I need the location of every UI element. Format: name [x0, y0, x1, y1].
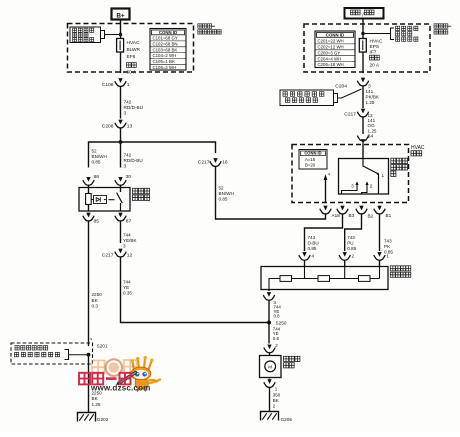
connector C106 pin 1 [102, 78, 130, 88]
svg-text:EPS: EPS [370, 44, 380, 50]
svg-text:3: 3 [124, 163, 127, 168]
svg-text:B=20: B=20 [305, 163, 316, 168]
svg-text:0.85: 0.85 [92, 160, 101, 165]
connector B3 [337, 206, 355, 218]
wire B+ to fuse EF6 [120, 20, 122, 39]
svg-text:RD/D-BU: RD/D-BU [124, 105, 144, 110]
svg-text:M: M [268, 364, 272, 369]
svg-text:CONN ID: CONN ID [159, 30, 177, 35]
svg-text:0.8: 0.8 [274, 314, 281, 319]
label: blower motor relay [133, 188, 150, 200]
svg-text:C204: C204 [335, 84, 347, 90]
connector C217 pin 13 [344, 109, 368, 118]
svg-text:2250: 2250 [92, 292, 103, 297]
CONN ID table (HVAC control) A=16 B=20 [299, 150, 327, 170]
svg-text:C217: C217 [198, 160, 210, 166]
svg-text:C101=68 GY: C101=68 GY [153, 36, 178, 41]
relay pin 30 connector [115, 174, 131, 185]
connector B4 into HVAC control [357, 136, 368, 159]
blower motor resistor R1 [261, 267, 388, 290]
svg-text:EF6: EF6 [127, 54, 136, 60]
svg-text:30: 30 [126, 174, 132, 180]
ground G202 [78, 413, 109, 423]
svg-text:2: 2 [275, 343, 278, 348]
svg-text:G202: G202 [97, 417, 109, 422]
wire RUN/START to fuse IF7 [362, 19, 364, 39]
svg-text:B2: B2 [368, 214, 374, 219]
label: fuse block - engine compartment [198, 24, 221, 34]
svg-text:A18: A18 [332, 213, 341, 218]
svg-text:744: 744 [123, 233, 131, 238]
svg-text:C105=1 BK: C105=1 BK [153, 59, 175, 64]
wire 2250 BK 0.3 (relay 85 to S201) [89, 221, 103, 347]
wire 742 RD/D-BU 3 to relay pin 30 [121, 142, 143, 168]
svg-text:HVAC: HVAC [127, 40, 141, 46]
svg-text:CONN ID: CONN ID [326, 33, 344, 38]
svg-text:2: 2 [352, 254, 355, 259]
svg-text:C102=68 BN: C102=68 BN [153, 41, 178, 46]
wire 2250 BK 1.25 (S201 to G202) [89, 355, 103, 413]
fuse box - engine compartment dashed enclosure [68, 24, 194, 73]
svg-text:PK: PK [384, 244, 391, 249]
label: blower motor [284, 356, 300, 368]
connector C217 pin 12 [102, 249, 133, 259]
relay pin 87 connector [115, 213, 132, 225]
label: blower motor switch [391, 158, 408, 176]
wire 744 YE 0.8 (S250 to blower motor) [269, 323, 281, 348]
svg-text:CONN ID: CONN ID [304, 151, 321, 156]
svg-text:BK: BK [92, 396, 99, 401]
wire 742 RD/D-BU 3 (C106 to C208) [121, 86, 144, 119]
wire 743 PK 0.85 (B1 to resistor pin 1) [380, 214, 394, 255]
svg-text:0.35: 0.35 [123, 291, 132, 296]
svg-text:60 A: 60 A [127, 69, 137, 75]
blower motor switch S1 [339, 159, 389, 195]
svg-text:RD/D-BU: RD/D-BU [124, 158, 143, 163]
label: fuse block - instrument panel [434, 24, 451, 34]
splice S201 with note: ground distribution schematic [11, 336, 108, 364]
svg-text:52: 52 [219, 186, 225, 191]
svg-text:4: 4 [312, 254, 315, 259]
svg-text:87: 87 [126, 219, 132, 225]
svg-text:85: 85 [94, 219, 100, 225]
svg-text:86: 86 [94, 174, 100, 180]
ground G205 [261, 412, 293, 423]
svg-text:C206=18 WH: C206=18 WH [318, 62, 344, 67]
svg-text:D-BU: D-BU [308, 241, 319, 246]
svg-text:BN/WH: BN/WH [92, 154, 107, 159]
connector C208 pin 13 [102, 120, 133, 130]
svg-text:BN/WH: BN/WH [219, 191, 234, 196]
connector A18 [320, 206, 340, 218]
svg-text:1: 1 [127, 82, 130, 88]
resistor pin 4 connector [299, 252, 315, 266]
svg-text:2: 2 [370, 184, 373, 189]
wire A18 feed arrow inside HVAC control [324, 173, 331, 203]
svg-text:1.25: 1.25 [366, 100, 375, 105]
connector B1 [374, 206, 392, 218]
power node RUN/START [345, 8, 384, 19]
svg-text:HVAC: HVAC [411, 145, 425, 151]
svg-text:0.8: 0.8 [273, 336, 280, 341]
svg-text:A=16: A=16 [305, 157, 316, 162]
wire 141 OG 1.25 (C217-13 to HVAC control B4) [363, 113, 377, 138]
wire 52 BN/WH 0.85 (C217-16 to HVAC control A18) [216, 166, 326, 219]
blower motor M1 [260, 356, 282, 378]
svg-text:HVAC: HVAC [370, 38, 384, 44]
wire branch to C217 pin 16 [121, 142, 216, 153]
svg-text:743: 743 [384, 239, 392, 244]
blower motor relay K1 [79, 185, 130, 211]
svg-text:742: 742 [124, 100, 132, 105]
svg-text:1: 1 [386, 254, 389, 259]
svg-text:743: 743 [347, 235, 355, 240]
svg-text:C208: C208 [102, 124, 114, 130]
svg-text:13: 13 [127, 124, 133, 130]
svg-text:743: 743 [308, 235, 316, 240]
note: power distribution schematic (middle) [280, 89, 362, 106]
fuse box - instrument panel dashed enclosure [304, 24, 430, 72]
svg-text:S201: S201 [97, 343, 108, 348]
connector C217 pin 16 [198, 158, 228, 166]
svg-text:BK: BK [273, 398, 279, 403]
blower motor pin 1 connector [264, 378, 278, 392]
svg-text:141: 141 [366, 89, 374, 94]
relay pin 86 connector [83, 174, 99, 185]
svg-text:B3: B3 [349, 213, 355, 218]
svg-text:20 A: 20 A [370, 62, 380, 68]
wire branch to relay coil (52 BN/WH 0.85) [89, 142, 121, 168]
connector C204 pin 3 [335, 78, 371, 90]
svg-text:742: 742 [124, 153, 132, 158]
svg-text:3: 3 [123, 244, 126, 249]
svg-text:744: 744 [123, 280, 131, 285]
svg-text:www.dzsc.com: www.dzsc.com [90, 383, 151, 392]
wire 744 YE 0.35 (C217-12 to S250) [121, 257, 268, 323]
relay pin 85 connector [83, 213, 99, 225]
svg-text:B1: B1 [386, 213, 392, 218]
fuse IF7 HVAC EPS 20A [359, 38, 383, 73]
fuse EF6 HVAC BLWR 60A [117, 39, 141, 76]
wire junction below C208 [119, 128, 123, 144]
wire 743 D-BU 0.85 (B3 to resistor pin 4) [305, 214, 343, 252]
watermark dzsc.com mascot and text [79, 356, 160, 392]
svg-text:0.85: 0.85 [219, 197, 228, 202]
svg-text:B+: B+ [116, 12, 125, 19]
svg-text:YE/BK: YE/BK [123, 238, 137, 243]
svg-text:C201=22 WH: C201=22 WH [318, 39, 344, 44]
svg-text:C104=2 WH: C104=2 WH [153, 53, 177, 58]
svg-text:4: 4 [328, 173, 330, 177]
svg-text:C217: C217 [344, 112, 356, 118]
wire 141 PK/BK 1.25 (C204 to C217-13) [363, 86, 380, 109]
svg-text:s: s [90, 336, 92, 341]
svg-text:BLWR: BLWR [127, 47, 141, 53]
CONN ID table (engine fuse box) [150, 29, 186, 71]
svg-text:0.85: 0.85 [347, 246, 356, 251]
svg-text:C103=68 BK: C103=68 BK [153, 47, 178, 52]
svg-text:3: 3 [351, 184, 354, 189]
svg-text:PU: PU [347, 241, 353, 246]
svg-text:BK: BK [92, 298, 99, 303]
svg-text:1.25: 1.25 [92, 402, 101, 407]
splice S250 [267, 321, 287, 326]
svg-text:3: 3 [124, 111, 127, 116]
svg-text:0.85: 0.85 [308, 246, 317, 251]
wire 744 YE 0.8 (resistor pin 3 to S250) [269, 300, 281, 323]
resistor pin 3 connector [263, 290, 274, 301]
note: power distribution schematic (in wiring system) [70, 27, 122, 43]
power node B+ [112, 9, 130, 20]
resistor pin 2 connector [339, 252, 354, 266]
svg-text:C106=2 WH: C106=2 WH [153, 65, 177, 70]
wire 743 PU 0.85 (B2 to resistor pin 2) [345, 214, 362, 252]
svg-text:12: 12 [127, 253, 133, 259]
HVAC control dashed enclosure [292, 145, 409, 203]
svg-text:S250: S250 [276, 321, 287, 326]
svg-text:C200=3 GY: C200=3 GY [318, 50, 341, 55]
svg-text:16: 16 [222, 160, 228, 166]
resistor pin 1 connector [374, 252, 389, 266]
label: blower motor resistor [390, 266, 411, 278]
svg-text:PK/BK: PK/BK [366, 95, 380, 100]
note: power distribution schematic (right) [361, 26, 418, 41]
svg-text:YE: YE [123, 285, 129, 290]
svg-text:IF7: IF7 [370, 50, 377, 56]
label: HVAC control [411, 145, 425, 156]
wire 744 YE/BK 3 (relay 87 to C217-12) [121, 221, 138, 249]
blower motor pin 2 connector [264, 345, 275, 356]
wire 350 BK 2 (motor to G205) [270, 387, 281, 412]
connector B2 [356, 206, 374, 219]
svg-text:C217: C217 [102, 253, 114, 259]
svg-text:1: 1 [382, 173, 385, 178]
svg-text:C106: C106 [102, 82, 114, 88]
svg-text:0.3: 0.3 [92, 304, 99, 309]
CONN ID table (IP fuse box) [315, 31, 355, 68]
svg-text:52: 52 [92, 149, 98, 154]
svg-text:350: 350 [273, 392, 281, 397]
svg-text:G205: G205 [281, 417, 293, 422]
svg-text:1: 1 [275, 387, 278, 392]
svg-text:C202=12 WH: C202=12 WH [318, 45, 344, 50]
svg-text:C204=4 WH: C204=4 WH [318, 56, 342, 61]
